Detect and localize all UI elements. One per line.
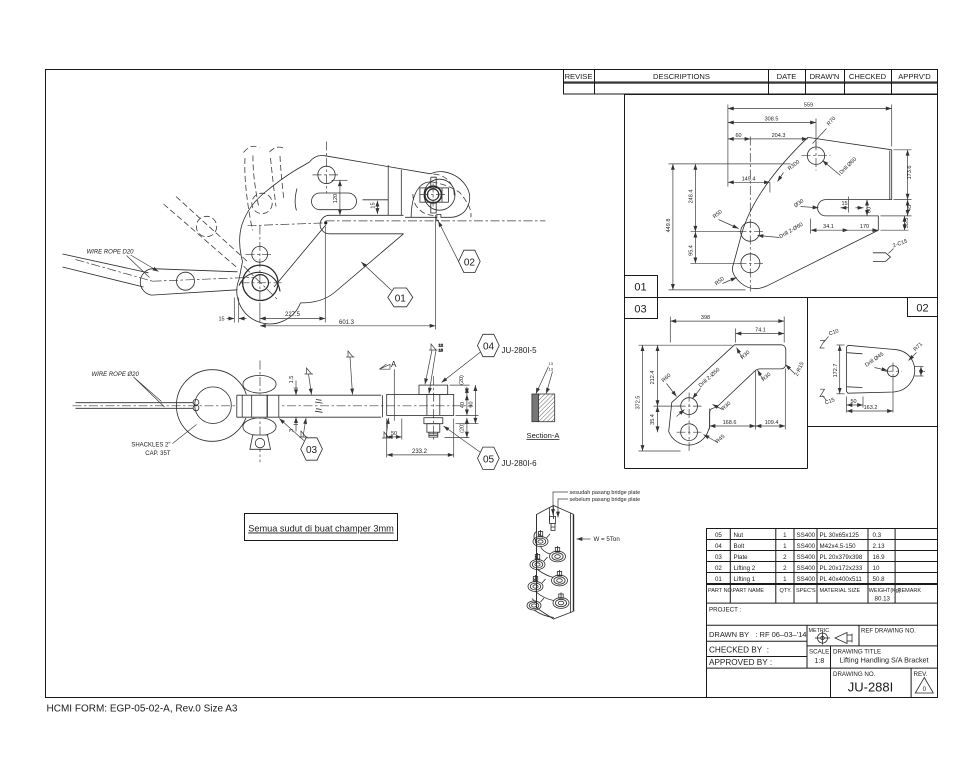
svg-text:55.5: 55.5 (904, 218, 910, 229)
svg-text:PART NAME: PART NAME (733, 588, 765, 594)
svg-text:15: 15 (218, 317, 224, 323)
svg-text:JU-280I-6: JU-280I-6 (502, 459, 538, 468)
svg-text:227.5: 227.5 (285, 312, 301, 318)
svg-text:60: 60 (735, 133, 741, 139)
svg-text:Bolt: Bolt (734, 543, 745, 550)
svg-text:60: 60 (867, 207, 873, 213)
svg-text:2: 2 (783, 565, 787, 572)
svg-text:REF DRAWING NO.: REF DRAWING NO. (861, 629, 916, 635)
svg-text:MATERIAL SIZE: MATERIAL SIZE (820, 588, 861, 594)
svg-text:Lifting 1: Lifting 1 (734, 576, 756, 583)
svg-text:WEIGHT(Kg): WEIGHT(Kg) (869, 588, 901, 594)
svg-text:204.3: 204.3 (772, 133, 786, 139)
svg-text:APPROVED BY :: APPROVED BY : (709, 658, 772, 667)
svg-text:REMARK: REMARK (898, 588, 922, 594)
svg-text:559: 559 (804, 103, 813, 109)
svg-text:02: 02 (464, 257, 476, 268)
svg-text:APPRV'D: APPRV'D (898, 72, 931, 81)
svg-text:PART NO.: PART NO. (708, 588, 734, 594)
svg-text:74.1: 74.1 (755, 328, 766, 334)
svg-text:M42x4.5-150: M42x4.5-150 (820, 543, 857, 550)
svg-text:04: 04 (715, 543, 722, 550)
svg-text:SS400: SS400 (797, 576, 816, 583)
svg-text:212.4: 212.4 (650, 371, 656, 385)
svg-text:2: 2 (783, 554, 787, 561)
svg-text:A: A (391, 360, 397, 369)
svg-text:01: 01 (395, 293, 407, 304)
svg-text:173.6: 173.6 (907, 166, 913, 180)
svg-text:95.4: 95.4 (689, 245, 695, 256)
svg-text:248.4: 248.4 (689, 190, 695, 204)
svg-text:15: 15 (439, 348, 444, 353)
svg-text:2.13: 2.13 (873, 543, 886, 550)
svg-text:WIRE ROPE Ø20: WIRE ROPE Ø20 (92, 372, 140, 378)
svg-text:04: 04 (483, 342, 495, 353)
svg-text:DESCRIPTIONS: DESCRIPTIONS (653, 72, 710, 81)
svg-text:REV.: REV. (914, 671, 928, 678)
svg-text:1.5: 1.5 (289, 376, 295, 384)
svg-text:METRIC: METRIC (809, 628, 830, 634)
svg-text:1: 1 (783, 532, 787, 539)
svg-text:sebelum pasang bridge plate: sebelum pasang bridge plate (570, 497, 641, 503)
svg-text:50: 50 (850, 399, 856, 405)
svg-text:SS400: SS400 (797, 565, 816, 572)
svg-text:01: 01 (634, 282, 646, 294)
svg-text:170: 170 (860, 224, 869, 230)
svg-text:HCMI FORM: EGP-05-02-A, Rev.0: HCMI FORM: EGP-05-02-A, Rev.0 Size A3 (47, 704, 238, 715)
svg-text:DRAWN BY : RF 06–03–'14: DRAWN BY : RF 06–03–'14 (709, 630, 806, 639)
svg-text:PL 40x400x511: PL 40x400x511 (820, 576, 863, 583)
svg-text:50.8: 50.8 (873, 576, 886, 583)
svg-text:80.13: 80.13 (875, 596, 891, 603)
svg-text:308.5: 308.5 (765, 117, 779, 123)
svg-text:0: 0 (923, 686, 927, 693)
svg-text:DRAW'N: DRAW'N (810, 72, 840, 81)
svg-text:(20): (20) (460, 423, 466, 433)
svg-text:16.9: 16.9 (873, 554, 886, 561)
svg-text:03: 03 (715, 554, 722, 561)
svg-text:50: 50 (391, 431, 397, 437)
svg-text:1: 1 (783, 576, 787, 583)
svg-text:SPEC'S: SPEC'S (796, 588, 816, 594)
svg-text:WIRE ROPE D20: WIRE ROPE D20 (87, 250, 135, 256)
svg-text:168.6: 168.6 (723, 420, 737, 426)
svg-text:233.2: 233.2 (412, 449, 428, 455)
svg-text:03: 03 (306, 445, 318, 456)
svg-text:PL 30x65x125: PL 30x65x125 (820, 532, 860, 539)
svg-text:SHACKLES 2": SHACKLES 2" (131, 443, 170, 449)
svg-text:10: 10 (873, 565, 880, 572)
svg-text:W = 5Ton: W = 5Ton (594, 536, 621, 543)
svg-text:Plate: Plate (734, 554, 749, 561)
svg-text:02: 02 (715, 565, 722, 572)
svg-text:Lifting Handling S/A Bracket: Lifting Handling S/A Bracket (839, 656, 928, 665)
svg-text:DATE: DATE (777, 72, 797, 81)
svg-text:13: 13 (549, 361, 554, 366)
svg-text:SS400: SS400 (797, 554, 816, 561)
svg-text:02: 02 (916, 303, 928, 315)
svg-text:DRAWING NO.: DRAWING NO. (833, 671, 876, 678)
svg-text:DRAWING TITLE: DRAWING TITLE (833, 649, 881, 656)
svg-text:REVISE: REVISE (565, 72, 593, 81)
svg-text:601.3: 601.3 (339, 320, 355, 326)
svg-text:1:8: 1:8 (815, 658, 825, 665)
svg-text:PL 20x172x233: PL 20x172x233 (820, 565, 863, 572)
svg-text:35.4: 35.4 (650, 414, 656, 425)
svg-text:SS400: SS400 (797, 543, 816, 550)
svg-text:Section-A: Section-A (527, 431, 561, 440)
svg-text:SCALE: SCALE (809, 649, 829, 656)
svg-text:109.4: 109.4 (765, 420, 779, 426)
svg-text:Lifting 2: Lifting 2 (734, 565, 756, 572)
svg-text:CHECKED BY :: CHECKED BY : (709, 646, 769, 655)
svg-text:398: 398 (701, 315, 710, 321)
svg-text:449.8: 449.8 (666, 219, 672, 233)
svg-text:34.1: 34.1 (823, 224, 834, 230)
svg-text:05: 05 (483, 454, 495, 465)
svg-text:sesudah pasang bridge plate: sesudah pasang bridge plate (570, 490, 641, 496)
svg-text:7: 7 (921, 370, 927, 373)
svg-text:149.4: 149.4 (742, 176, 756, 182)
svg-text:(20): (20) (459, 375, 465, 385)
svg-text:PL 20x379x398: PL 20x379x398 (820, 554, 863, 561)
svg-text:60: 60 (469, 401, 475, 407)
svg-text:SS400: SS400 (797, 532, 816, 539)
svg-text:CAP. 35T: CAP. 35T (145, 451, 171, 457)
svg-text:JU-288I: JU-288I (848, 680, 894, 695)
svg-text:05: 05 (715, 532, 722, 539)
svg-text:Nut: Nut (734, 532, 744, 539)
svg-text:JU-280I-5: JU-280I-5 (502, 346, 538, 355)
svg-text:0.3: 0.3 (873, 532, 882, 539)
svg-text:15: 15 (841, 201, 847, 207)
svg-text:03: 03 (634, 304, 646, 316)
svg-text:172.7: 172.7 (833, 364, 839, 378)
svg-text:13: 13 (549, 367, 554, 372)
svg-text:120: 120 (333, 194, 339, 203)
svg-text:1: 1 (783, 543, 787, 550)
svg-text:163.2: 163.2 (864, 405, 878, 411)
svg-text:PROJECT :: PROJECT : (709, 607, 741, 614)
svg-text:Semua sudut di buat champer 3m: Semua sudut di buat champer 3mm (248, 524, 394, 534)
svg-text:40: 40 (460, 402, 466, 408)
svg-text:01: 01 (715, 576, 722, 583)
svg-text:CHECKED: CHECKED (849, 72, 887, 81)
svg-text:QTY.: QTY. (780, 588, 793, 594)
svg-text:15: 15 (370, 202, 376, 208)
svg-text:372.5: 372.5 (635, 396, 641, 410)
svg-text:45: 45 (907, 205, 913, 211)
